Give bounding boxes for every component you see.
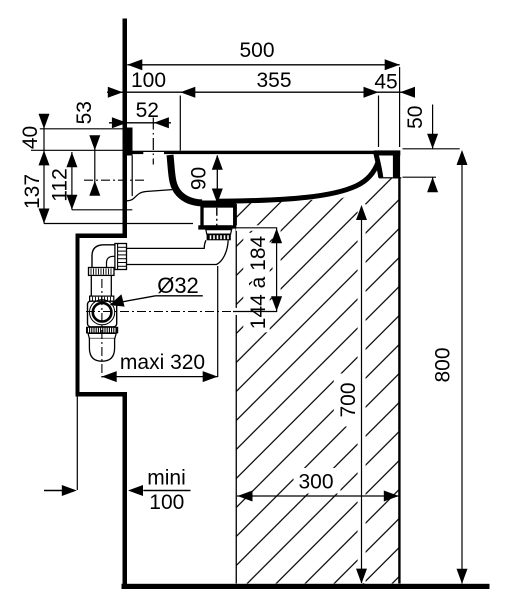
- svg-text:144 à 184: 144 à 184: [247, 235, 270, 329]
- furring face extension line: [77, 397, 78, 491]
- drain centerline dash: [216, 208, 218, 226]
- svg-text:100: 100: [149, 491, 184, 514]
- tailpipe bend inner wall + pipe top line: [127, 240, 206, 248]
- ext line basin front bottom: [403, 176, 437, 178]
- svg-text:112: 112: [49, 168, 72, 201]
- svg-text:mini: mini: [147, 467, 186, 490]
- halo band for 144-184 bottom ext line: [234, 308, 282, 315]
- svg-text:800: 800: [432, 347, 455, 382]
- ext line basin top right: [403, 148, 460, 150]
- 144-184 bottom ext line: [233, 311, 277, 313]
- dimension line 100/355/45: [107, 91, 415, 93]
- floor: [122, 584, 490, 589]
- halo for 300 text: [294, 468, 341, 494]
- bowl rear wall: [170, 155, 202, 203]
- trap cleanout circle: [93, 303, 112, 322]
- svg-text:300: 300: [298, 471, 333, 494]
- dimension 300: [237, 495, 399, 497]
- svg-text:40: 40: [19, 126, 42, 149]
- dimension 90: [216, 156, 218, 204]
- ext line at 355/45 boundary: [378, 96, 380, 148]
- halo for 144-184 dim line: [273, 229, 281, 311]
- hatch right edge: [398, 178, 400, 584]
- dimension 53: [94, 136, 96, 184]
- dimension 40/137 vertical line: [43, 116, 45, 224]
- hatch left edge: [236, 204, 237, 584]
- dimension 50: [432, 105, 434, 149]
- basin rear upstand: [127, 128, 133, 156]
- trap elbow lower nut: [89, 268, 115, 276]
- ext line at 100/355 boundary: [179, 96, 181, 151]
- dimension 112: [71, 152, 73, 210]
- dimension maxi 320: [102, 376, 218, 378]
- basin boss underside: [127, 190, 172, 201]
- svg-text:355: 355: [256, 69, 291, 92]
- 112 bottom ext line: [72, 209, 132, 211]
- basin front upstand right bar: [393, 151, 400, 179]
- wall: [123, 19, 128, 239]
- drain ribbed nut: [207, 234, 231, 240]
- svg-text:50: 50: [404, 106, 427, 129]
- drain collar: [206, 230, 232, 235]
- fixing hole axis dash-dot: [84, 179, 146, 181]
- trap vertical centerline: [101, 279, 103, 378]
- maxi 320 right ext line: [217, 266, 219, 377]
- furring box left face: [76, 234, 80, 397]
- upstand top ext line: [40, 128, 123, 130]
- dimension 144 a 184: [276, 228, 278, 311]
- halo for 700 text: [334, 374, 359, 427]
- tailpipe bend outer wall + pipe bottom line: [127, 240, 228, 264]
- trap elbow outer wall: [92, 245, 115, 269]
- svg-text:90: 90: [187, 167, 210, 190]
- dimension 500: [127, 64, 399, 66]
- basin rim deck: [127, 151, 377, 154]
- trap inlet tube: [90, 275, 92, 296]
- trap elbow nut at wall: [115, 244, 127, 270]
- dimension 800: [461, 152, 463, 584]
- ext line right of 500: [399, 67, 401, 147]
- trap cup flange: [88, 333, 116, 338]
- 52 dashed axis: [152, 118, 154, 165]
- trap cleanout outer circle: [90, 300, 115, 325]
- svg-text:137: 137: [21, 174, 44, 209]
- rim level ext line: [31, 149, 123, 151]
- furring box top cap: [76, 234, 123, 239]
- svg-text:maxi 320: maxi 320: [120, 351, 205, 374]
- svg-text:Ø32: Ø32: [157, 273, 199, 298]
- halo for 144 a 184 text: [243, 233, 269, 332]
- svg-text:52: 52: [136, 99, 159, 122]
- trap knurled nut: [86, 327, 118, 334]
- halo for 144-184 top ext line: [236, 225, 277, 231]
- furring box bottom cap: [76, 392, 128, 397]
- svg-text:45: 45: [374, 71, 397, 94]
- dimension 700: [361, 207, 363, 584]
- bowl front + underside: [216, 162, 378, 202]
- basin front bottom line: [379, 177, 401, 178]
- basin back face line: [132, 156, 133, 197]
- trap bottle body: [88, 301, 117, 327]
- svg-text:100: 100: [131, 69, 166, 92]
- halo for 700 dim line: [358, 204, 366, 583]
- svg-text:700: 700: [337, 382, 360, 417]
- svg-text:500: 500: [239, 39, 274, 62]
- hatched clearance zone: [236, 178, 400, 584]
- trap elbow inner wall: [107, 256, 115, 269]
- trap outlet centerline (horizontal dash-dot): [86, 311, 233, 313]
- trap upper bottle nut: [90, 296, 114, 301]
- drain bottom flange: [198, 225, 232, 229]
- 137 bottom ext line: [44, 223, 193, 225]
- svg-text:53: 53: [73, 101, 96, 124]
- dimension 52: [109, 122, 171, 124]
- fixing tab (white notch in rim): [143, 152, 164, 155]
- dimension mini 100: [44, 490, 64, 492]
- basin front upstand inner curve: [376, 154, 381, 178]
- drain box: [202, 206, 235, 227]
- trap cup: [89, 339, 114, 362]
